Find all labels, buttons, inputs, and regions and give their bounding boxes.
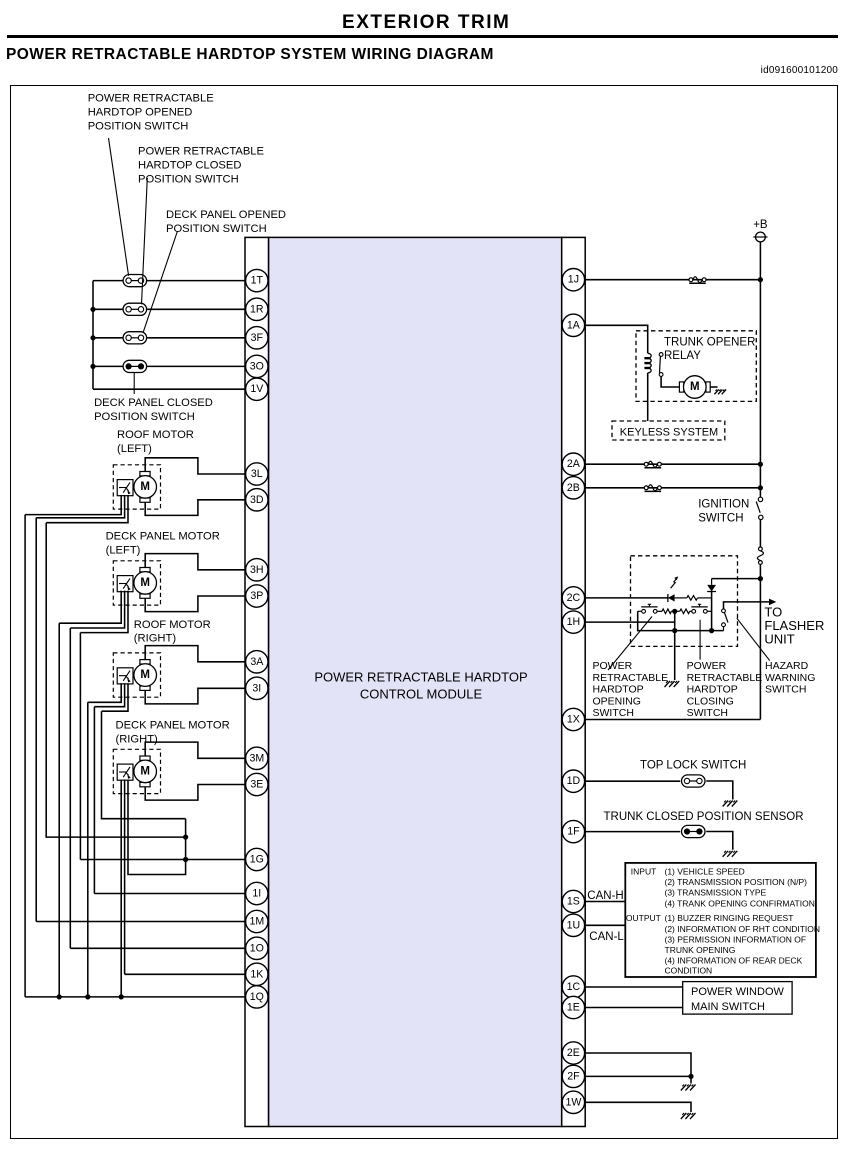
svg-text:2B: 2B: [567, 482, 580, 494]
svg-text:M: M: [140, 765, 150, 777]
svg-text:OUTPUT: OUTPUT: [626, 913, 661, 923]
svg-text:1M: 1M: [249, 916, 264, 928]
svg-text:CONDITION: CONDITION: [665, 966, 713, 976]
svg-text:(LEFT): (LEFT): [106, 544, 141, 556]
svg-text:3F: 3F: [251, 332, 264, 344]
svg-text:CONTROL MODULE: CONTROL MODULE: [360, 687, 483, 702]
svg-text:POWER RETRACTABLE: POWER RETRACTABLE: [138, 146, 264, 158]
svg-text:1X: 1X: [567, 714, 580, 726]
svg-text:ROOF MOTOR: ROOF MOTOR: [117, 429, 194, 441]
svg-text:SWITCH: SWITCH: [593, 707, 634, 719]
svg-text:(3) PERMISSION INFORMATION OF: (3) PERMISSION INFORMATION OF: [665, 935, 807, 945]
svg-text:MAIN SWITCH: MAIN SWITCH: [691, 1001, 765, 1013]
svg-text:DECK PANEL CLOSED: DECK PANEL CLOSED: [94, 397, 213, 409]
svg-text:1T: 1T: [251, 275, 264, 287]
svg-text:1F: 1F: [567, 826, 580, 838]
svg-text:(2) INFORMATION OF RHT CONDITI: (2) INFORMATION OF RHT CONDITION: [665, 924, 821, 934]
svg-text:1H: 1H: [567, 616, 581, 628]
svg-text:(3) TRANSMISSION TYPE: (3) TRANSMISSION TYPE: [665, 888, 767, 898]
svg-text:HARDTOP CLOSED: HARDTOP CLOSED: [138, 160, 241, 172]
svg-text:HAZARD: HAZARD: [765, 660, 809, 672]
svg-text:1E: 1E: [567, 1002, 580, 1014]
svg-text:WARNING: WARNING: [765, 672, 815, 684]
svg-text:1J: 1J: [568, 274, 579, 286]
svg-text:(RIGHT): (RIGHT): [134, 633, 177, 645]
svg-text:RETRACTABLE: RETRACTABLE: [687, 672, 763, 684]
svg-text:1I: 1I: [252, 888, 261, 900]
svg-text:SWITCH: SWITCH: [698, 513, 743, 525]
svg-text:3M: 3M: [249, 752, 264, 764]
svg-text:DECK PANEL MOTOR: DECK PANEL MOTOR: [106, 530, 220, 542]
svg-text:(4) INFORMATION OF REAR DECK: (4) INFORMATION OF REAR DECK: [665, 956, 803, 966]
svg-text:HARDTOP: HARDTOP: [687, 684, 738, 696]
svg-text:1D: 1D: [567, 775, 581, 787]
svg-text:POSITION SWITCH: POSITION SWITCH: [94, 411, 195, 423]
svg-text:TOP LOCK SWITCH: TOP LOCK SWITCH: [640, 760, 746, 772]
svg-text:1U: 1U: [567, 919, 581, 931]
svg-text:DECK PANEL OPENED: DECK PANEL OPENED: [166, 209, 286, 221]
svg-text:(1) BUZZER RINGING REQUEST: (1) BUZZER RINGING REQUEST: [665, 913, 794, 923]
svg-text:HARDTOP: HARDTOP: [593, 684, 644, 696]
svg-text:(4) TRANK OPENING CONFIRMATION: (4) TRANK OPENING CONFIRMATION: [665, 898, 815, 908]
svg-text:POWER RETRACTABLE HARDTOP: POWER RETRACTABLE HARDTOP: [314, 669, 527, 684]
svg-text:DECK PANEL MOTOR: DECK PANEL MOTOR: [116, 719, 230, 731]
svg-text:+B: +B: [753, 219, 768, 231]
svg-text:2E: 2E: [567, 1047, 580, 1059]
svg-text:UNIT: UNIT: [764, 632, 794, 647]
svg-text:IGNITION: IGNITION: [698, 498, 749, 510]
svg-text:1O: 1O: [250, 942, 264, 954]
svg-text:M: M: [140, 481, 150, 493]
svg-text:3I: 3I: [252, 682, 261, 694]
svg-text:(1) VEHICLE SPEED: (1) VEHICLE SPEED: [665, 867, 745, 877]
svg-text:RELAY: RELAY: [664, 350, 701, 362]
svg-text:2A: 2A: [567, 458, 581, 470]
svg-text:3O: 3O: [250, 360, 264, 372]
svg-text:3L: 3L: [251, 468, 263, 480]
svg-text:TRUNK OPENER: TRUNK OPENER: [664, 336, 755, 348]
svg-text:1R: 1R: [250, 303, 264, 315]
svg-text:OPENING: OPENING: [593, 695, 641, 707]
svg-text:3P: 3P: [250, 590, 263, 602]
svg-text:POWER: POWER: [687, 660, 727, 672]
svg-text:3A: 3A: [250, 656, 264, 668]
svg-text:1S: 1S: [567, 896, 580, 908]
svg-text:2F: 2F: [567, 1070, 580, 1082]
svg-text:POSITION SWITCH: POSITION SWITCH: [138, 174, 239, 186]
svg-text:3D: 3D: [250, 494, 264, 506]
svg-text:2C: 2C: [567, 592, 581, 604]
svg-text:M: M: [140, 577, 150, 589]
svg-text:POSITION SWITCH: POSITION SWITCH: [88, 121, 189, 133]
svg-text:1A: 1A: [567, 319, 581, 331]
svg-text:SWITCH: SWITCH: [687, 707, 728, 719]
svg-text:(LEFT): (LEFT): [117, 443, 152, 455]
svg-text:TRUNK OPENING: TRUNK OPENING: [665, 945, 736, 955]
svg-text:SWITCH: SWITCH: [765, 684, 806, 696]
svg-text:1V: 1V: [250, 383, 264, 395]
svg-text:KEYLESS SYSTEM: KEYLESS SYSTEM: [620, 426, 718, 438]
svg-text:POWER RETRACTABLE: POWER RETRACTABLE: [88, 93, 214, 105]
svg-text:CAN-L: CAN-L: [589, 931, 624, 943]
svg-text:CAN-H: CAN-H: [587, 890, 623, 902]
svg-text:POWER: POWER: [593, 660, 633, 672]
svg-text:RETRACTABLE: RETRACTABLE: [593, 672, 669, 684]
svg-text:3H: 3H: [250, 564, 264, 576]
svg-text:1W: 1W: [565, 1096, 581, 1108]
svg-text:M: M: [140, 669, 150, 681]
svg-text:M: M: [690, 381, 700, 393]
svg-text:(2) TRANSMISSION POSITION (N/P: (2) TRANSMISSION POSITION (N/P): [665, 877, 808, 887]
svg-text:ROOF MOTOR: ROOF MOTOR: [134, 619, 211, 631]
svg-text:POSITION SWITCH: POSITION SWITCH: [166, 223, 267, 235]
svg-text:1G: 1G: [250, 854, 264, 866]
svg-text:TRUNK CLOSED POSITION SENSOR: TRUNK CLOSED POSITION SENSOR: [604, 811, 804, 823]
svg-text:HARDTOP OPENED: HARDTOP OPENED: [88, 107, 193, 119]
svg-text:1Q: 1Q: [250, 991, 264, 1003]
svg-text:INPUT: INPUT: [631, 867, 657, 877]
svg-text:1C: 1C: [567, 981, 581, 993]
svg-text:CLOSING: CLOSING: [687, 695, 734, 707]
svg-text:3E: 3E: [250, 779, 263, 791]
svg-text:1K: 1K: [250, 968, 263, 980]
svg-text:(RIGHT): (RIGHT): [116, 733, 159, 745]
svg-text:POWER WINDOW: POWER WINDOW: [691, 986, 784, 998]
